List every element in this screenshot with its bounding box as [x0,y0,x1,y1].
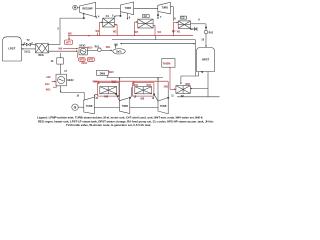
pump RA2 [204,30,214,34]
svg-text:LPST: LPST [8,47,15,51]
wire red into C1 [99,22,117,36]
wire black short line [120,36,195,45]
svg-text:W20: W20 [109,72,114,74]
pump RA1 [87,45,112,51]
svg-text:M: M [74,6,77,10]
heater JH1 [171,86,190,98]
node 15 wire B1 to heater A [94,95,99,101]
svg-text:DaTc: DaTc [116,51,122,53]
svg-text:4: 4 [98,14,100,18]
svg-text:W19: W19 [93,82,98,84]
svg-text:16: 16 [77,96,80,98]
generator G [72,104,84,110]
svg-text:A22: A22 [46,76,51,79]
svg-text:7: 7 [160,15,162,19]
svg-text:RECOMP: RECOMP [82,9,93,11]
svg-text:15: 15 [95,98,98,100]
valve WC [190,28,197,32]
svg-text:WT3: WT3 [79,60,85,62]
node 13 wire B2 to heater B [129,87,137,98]
node 4 drain T1 to C1 [95,14,100,18]
svg-text:RA1: RA1 [95,45,100,48]
motor M1 [73,5,80,10]
heater C2 [138,15,153,29]
turbine B3 [158,98,168,114]
svg-text:18 (1): 18 (1) [24,51,30,53]
node 5 T2 inlet branch [112,12,121,18]
svg-text:W8: W8 [68,33,72,35]
svg-text:6: 6 [129,16,131,20]
svg-text:5: 5 [112,14,114,18]
valve TV [21,39,35,46]
svg-text:3: 3 [57,27,59,31]
svg-text:G: G [74,106,77,110]
svg-text:9: 9 [198,18,200,22]
svg-text:C1: C1 [106,14,110,18]
svg-text:WT7: WT7 [66,43,72,45]
svg-text:AG1: AG1 [45,83,50,86]
tags WT3 WT2 [78,53,95,62]
heater C3 [178,16,190,28]
node 11 wire B3 outlet riser [168,81,169,98]
svg-text:WC: WC [190,29,194,31]
node 3 riser into T1 [57,12,84,44]
svg-text:TURB: TURB [160,106,167,108]
svg-text:8: 8 [174,17,176,21]
turbine B1 [84,97,95,114]
svg-text:W1: W1 [172,31,176,33]
wire red heat bus [94,81,168,84]
wire HPST loop right [177,72,220,97]
node 8 T3 outlet to C3 [170,7,176,22]
turbine T3 [158,2,171,14]
turbine T2 [120,2,133,15]
labels red HEX2 side [45,76,51,91]
wire red into JH1 [170,67,176,90]
svg-text:TURB: TURB [122,106,129,108]
svg-text:12: 12 [152,98,155,100]
tank HPST [197,48,215,72]
node 10 into HPST [201,34,207,48]
wire red into HEX1 [63,48,78,50]
wire REG to HEX1 [49,50,79,52]
svg-text:TURB: TURB [162,8,169,10]
svg-text:AVG1: AVG1 [81,62,88,65]
svg-text:W15: W15 [112,82,117,84]
svg-text:RHSM: RHSM [163,63,170,66]
node 7 drain T3 left [157,12,162,20]
svg-text:W6: W6 [59,48,63,50]
svg-text:11: 11 [171,95,174,97]
node 16 wire to TURB row [60,86,84,100]
wire B2 inlet riser [119,77,121,100]
node 9 wire C3 to RA2 [191,18,207,31]
svg-text:78: 78 [201,72,204,74]
svg-text:W5: W5 [135,32,139,34]
box red heater B [133,83,154,96]
hex HEX1 [79,45,87,55]
svg-text:W11: W11 [106,47,111,49]
tag WT7 [65,40,73,45]
svg-text:DW5: DW5 [100,72,106,75]
svg-text:REG: REG [39,54,44,57]
wire B3 inlet riser [157,77,159,101]
svg-text:10: 10 [201,38,204,42]
wire red into C3 [173,22,179,36]
heater C1 [103,14,115,27]
shaft wire B1 to B2 [94,107,119,109]
svg-text:W4: W4 [158,31,162,34]
svg-text:W9: W9 [114,44,118,46]
box heat load input [162,59,175,68]
wire red into C2 [135,21,156,35]
tag DW5 [97,70,109,75]
svg-text:HEX2: HEX2 [67,79,74,82]
wire W9 stub [115,44,117,48]
svg-text:TV: TV [27,39,30,42]
node 18 return wire [22,48,36,53]
node 12 wire heater B to B3 [152,94,158,101]
wire red into HEX2 [52,81,57,88]
wire black feed line [112,40,195,76]
wire T1 to T2 [96,8,121,10]
box red heater A [93,82,119,97]
svg-text:W10: W10 [88,48,93,50]
box CL [51,53,68,74]
svg-text:W16: W16 [133,85,138,87]
svg-text:17: 17 [64,70,67,73]
turbine B2 [120,98,130,114]
regenerator REG [36,44,49,57]
wire HPST bottom to JH1 top [180,72,204,85]
tank LPST [3,37,22,61]
svg-text:TURB: TURB [86,106,93,108]
node 14 wire heater A to B2 [116,93,120,100]
svg-text:TURB: TURB [125,8,132,10]
svg-text:W3: W3 [96,31,100,33]
hex HEX2 [56,74,74,86]
labels W3 W2 W5 W4 red row [96,31,181,34]
tag DaTc oval [113,49,126,54]
wire T2 to T3 [134,7,158,9]
svg-text:HPST: HPST [202,58,210,62]
wire REG to riser [49,44,61,46]
svg-text:W1: W1 [177,32,181,34]
svg-text:RA2: RA2 [209,32,214,35]
wire black drains bus [107,75,164,77]
svg-text:W2: W2 [113,32,117,34]
svg-text:TV-throttle valve, W-stream no: TV-throttle valve, W-stream node, G-gene… [66,123,151,127]
wire red bus [68,33,193,41]
compressor T1 [80,2,96,16]
svg-text:W21: W21 [46,89,51,91]
svg-text:W17: W17 [147,85,152,87]
shaft wire B2 to B3 [130,107,158,109]
node 6 drain T2 [127,13,131,19]
svg-text:IH2: IH2 [141,99,145,101]
svg-text:WT2: WT2 [88,60,94,62]
svg-text:IH3: IH3 [105,97,109,99]
svg-text:CL: CL [51,60,55,63]
svg-text:13: 13 [134,97,137,99]
svg-text:HEX1: HEX1 [79,45,86,48]
